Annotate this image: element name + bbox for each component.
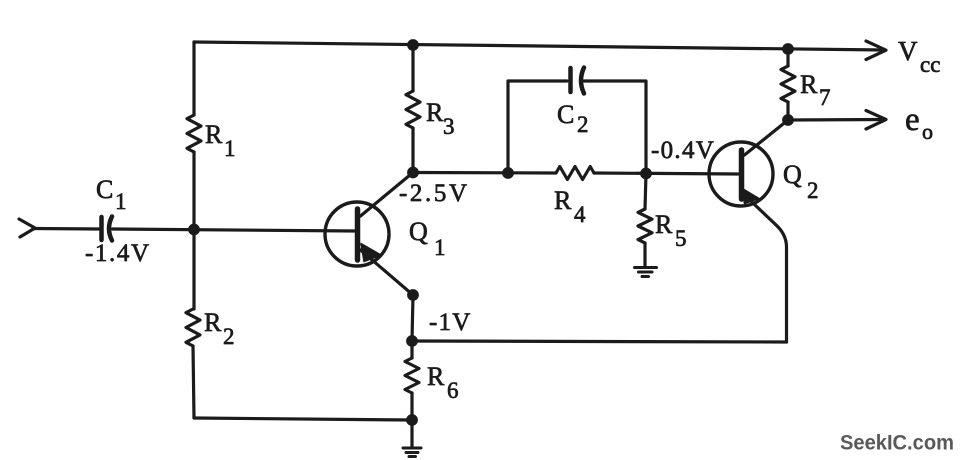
capacitor C2 — [571, 68, 585, 94]
node R6 bottom — [406, 414, 418, 426]
transistor Q2 circle — [709, 142, 773, 206]
wire emitter down to -1V node — [412, 295, 413, 341]
resistor R7 — [781, 66, 795, 102]
node R4/R5/base junction — [640, 168, 652, 180]
ground under R5 — [635, 268, 657, 277]
svg-text:R: R — [800, 70, 818, 99]
node Q1 emitter junction — [407, 289, 419, 301]
resistor R4 — [556, 167, 594, 180]
node top rail / R7 junction — [782, 43, 794, 55]
transistor Q1 emitter lead — [361, 250, 414, 295]
wire e_o output — [788, 118, 884, 122]
wire ground stem — [410, 420, 413, 448]
resistor R6 — [405, 358, 419, 393]
svg-text:5: 5 — [675, 226, 687, 251]
resistor R3 leads — [411, 45, 414, 172]
svg-text:R: R — [554, 186, 572, 215]
wire C1 to Q1 base — [113, 229, 356, 231]
transistor Q1 emitter arrowhead — [361, 244, 381, 262]
wire bottom rail — [194, 418, 412, 420]
capacitor C1 — [102, 217, 113, 241]
transistor Q2 emitter arrowhead — [742, 188, 760, 204]
capacitor C2 box wires — [508, 81, 646, 173]
svg-text:R: R — [655, 210, 673, 239]
svg-text:o: o — [922, 119, 933, 144]
svg-text:Q: Q — [783, 160, 802, 189]
svg-text:4: 4 — [574, 202, 586, 227]
svg-text:3: 3 — [443, 114, 455, 139]
transistor Q1 collector lead — [361, 173, 414, 217]
svg-text:2: 2 — [807, 178, 819, 203]
svg-text:V: V — [898, 36, 918, 66]
transistor Q2 emitter lead — [745, 195, 787, 342]
transistor Q2 collector lead — [745, 120, 789, 155]
ground under R6 — [403, 448, 421, 457]
wire -2.5V node to R4 — [413, 171, 556, 175]
node top rail / R3 junction — [407, 39, 419, 51]
svg-text:SeekIC.com: SeekIC.com — [840, 431, 954, 455]
resistor R5 — [638, 209, 652, 243]
wire e_o arrowhead — [866, 111, 886, 130]
svg-text:C: C — [96, 175, 113, 204]
svg-text:R: R — [205, 120, 223, 149]
svg-text:R: R — [204, 308, 222, 337]
node input junction — [188, 224, 200, 236]
wire top rail Vcc — [194, 42, 884, 50]
svg-text:1: 1 — [115, 189, 127, 214]
wire Vcc arrowhead — [866, 41, 886, 60]
transistor Q2 base bar — [739, 150, 745, 199]
svg-text:cc: cc — [920, 52, 940, 77]
node R7 bottom / e_o — [782, 114, 794, 126]
resistor R3 — [406, 91, 420, 128]
svg-text:-1.4V: -1.4V — [85, 240, 151, 267]
svg-text:e: e — [905, 102, 920, 138]
node C2 left — [502, 167, 514, 179]
resistor R7 leads — [786, 49, 789, 120]
svg-text:1: 1 — [434, 235, 446, 260]
svg-text:R: R — [426, 98, 444, 127]
svg-text:2: 2 — [223, 324, 235, 349]
resistor R2 — [186, 309, 200, 346]
node -1V — [406, 335, 418, 347]
svg-text:-2.5V: -2.5V — [399, 180, 470, 207]
svg-text:6: 6 — [447, 378, 459, 403]
node collector -2.5V — [407, 167, 419, 179]
wire -1V feedback to Q2 emitter — [412, 341, 787, 342]
transistor Q1 base bar — [355, 209, 361, 260]
wire left vertical (R1/R2 branch) — [193, 42, 194, 418]
svg-text:Q: Q — [409, 217, 428, 246]
wire R4 to Q2 base — [594, 173, 738, 174]
resistor R6 leads — [410, 341, 413, 420]
svg-text:C: C — [557, 100, 574, 129]
resistor R5 leads — [645, 174, 646, 268]
svg-text:-0.4V: -0.4V — [651, 137, 715, 164]
svg-text:7: 7 — [819, 85, 831, 110]
transistor Q1 circle — [325, 202, 389, 266]
svg-text:2: 2 — [577, 112, 589, 137]
svg-text:R: R — [427, 362, 445, 391]
svg-text:1: 1 — [224, 136, 236, 161]
input arrow chevron — [19, 219, 35, 237]
svg-text:-1V: -1V — [429, 309, 471, 336]
resistor R1 — [187, 115, 201, 152]
wire input to C1 — [33, 227, 99, 231]
